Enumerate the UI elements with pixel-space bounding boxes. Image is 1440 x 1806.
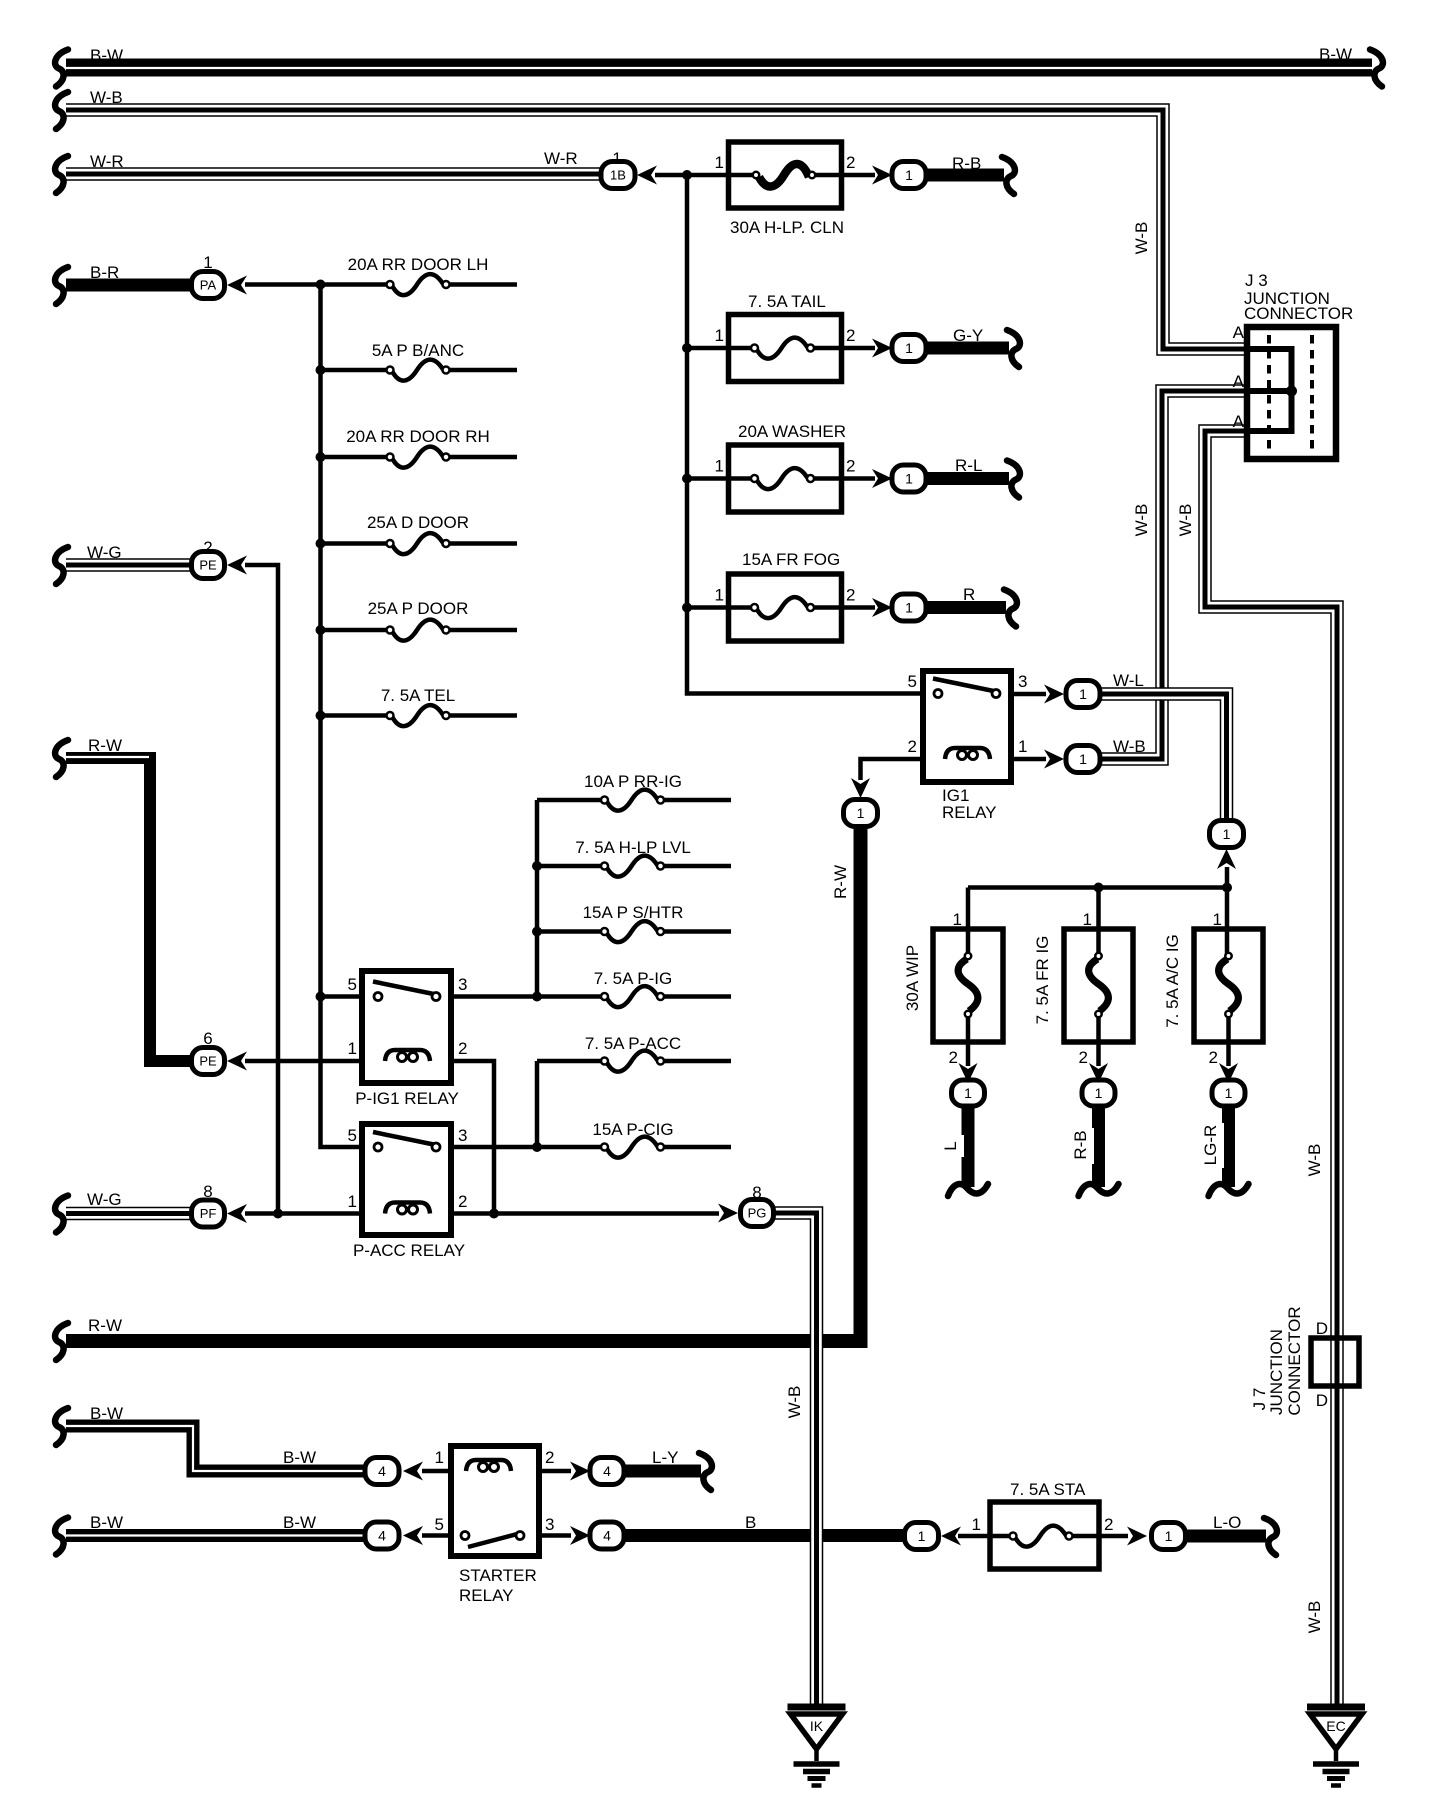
svg-text:1: 1 (715, 457, 724, 476)
svg-text:1: 1 (1079, 686, 1087, 702)
svg-text:1: 1 (435, 1448, 444, 1467)
node: PA bus junction row 6 (316, 711, 326, 721)
break: B-R left (55, 267, 68, 304)
svg-text:1: 1 (905, 167, 913, 183)
svg-text:2: 2 (458, 1192, 467, 1211)
relay P-IG1 coil pins 1-2 (385, 1050, 430, 1062)
fuse 7.5A P-ACC (601, 1051, 664, 1072)
svg-text:PA: PA (200, 278, 217, 293)
arrow into PF (227, 1204, 247, 1223)
relay P-ACC switch pins 5-3 (373, 1132, 440, 1151)
connector 1 on R-W below IG1 pin 2 (844, 800, 878, 827)
junction connector J3 internal bus pins A-A-A (1250, 349, 1292, 431)
svg-text:B-W: B-W (90, 1404, 123, 1423)
svg-text:PE: PE (199, 1054, 217, 1069)
svg-text:1B: 1B (610, 168, 626, 183)
svg-text:A: A (1233, 372, 1245, 391)
arrow into FR FOG output connector (872, 598, 892, 617)
connector 4 starter pin 5 feed (365, 1522, 399, 1549)
wire: L output of 30A WIP (962, 1104, 975, 1187)
svg-text:W-G: W-G (87, 1190, 122, 1209)
svg-text:1: 1 (905, 600, 913, 616)
wire: 30A WIP pin 1 drop (966, 888, 971, 1067)
wire: PA connector to left fuse bus (245, 282, 321, 287)
wire: PE pin 6 to P-IG1 relay pin 1 (245, 1059, 364, 1064)
connector PE pin 6 (192, 1048, 225, 1075)
svg-text:7. 5A P-ACC: 7. 5A P-ACC (585, 1034, 681, 1053)
svg-text:1: 1 (1095, 1085, 1103, 1101)
svg-text:5: 5 (348, 1126, 357, 1145)
svg-text:W-G: W-G (87, 543, 122, 562)
svg-text:W-R: W-R (544, 149, 578, 168)
svg-text:B-R: B-R (90, 263, 119, 282)
fuse box 20A WASHER (729, 445, 842, 512)
wire: 15A P S/HTR fuse row (537, 929, 731, 934)
svg-text:1: 1 (1225, 1085, 1233, 1101)
svg-text:W-B: W-B (90, 88, 123, 107)
fuse 7.5A TEL (387, 705, 450, 726)
node: FR FOG feed junction (682, 603, 692, 613)
arrow into starter pin 1 feed connector (403, 1462, 423, 1481)
fuse box 30A WIP (933, 929, 1003, 1042)
svg-text:20A RR DOOR LH: 20A RR DOOR LH (348, 255, 489, 274)
wire: P-IG1 relay pin 2 down to PG row (451, 1061, 494, 1214)
connector 1B (601, 162, 635, 189)
break: L-Y right (699, 1453, 712, 1490)
svg-text:JUNCTION: JUNCTION (1267, 1329, 1286, 1415)
fuse 25A D DOOR (387, 533, 450, 554)
arrow into W-B connector at IG1 pin 1 (1044, 750, 1064, 769)
svg-text:1: 1 (715, 586, 724, 605)
relay P-ACC box (362, 1124, 451, 1235)
wire: B-R feed to PA (66, 279, 196, 292)
connector 4 starter pin 2 out (590, 1458, 624, 1485)
connector 1 on W-L feed to right fuses (1210, 821, 1244, 848)
svg-text:P-IG1 RELAY: P-IG1 RELAY (355, 1089, 459, 1108)
svg-text:1: 1 (972, 1515, 981, 1534)
svg-text:B-W: B-W (283, 1513, 316, 1532)
wire: starter relay pin 3 out (538, 1533, 571, 1538)
break: R right (1004, 590, 1017, 627)
connector 1 on B wire (905, 1523, 939, 1550)
connector 1 after 30A H-LP.CLN (892, 162, 926, 189)
wire: vertical feed bus from W-R down to IG1 relay pin 5 (687, 175, 924, 694)
node: PA bus junction row 1 (316, 280, 326, 290)
break: B-W starter bottom left (55, 1518, 68, 1555)
fuse element 7.5A TAIL (751, 338, 814, 359)
connector 1 after 7.5A TAIL (892, 335, 926, 362)
fuse 15A P-CIG (601, 1137, 664, 1158)
svg-text:20A WASHER: 20A WASHER (738, 422, 846, 441)
node: PA bus junction row 4 (316, 539, 326, 549)
wire: R-B output of 30A H-LP.CLN (924, 169, 1004, 182)
connector PE pin 2 (192, 552, 225, 579)
svg-text:B-W: B-W (1319, 45, 1352, 64)
fuse box 7.5A STA (990, 1502, 1099, 1569)
svg-text:4: 4 (378, 1528, 386, 1544)
wire: R-W feed to PE pin 6 (66, 757, 196, 1061)
arrow into W-L connector at IG1 pin 3 (1044, 685, 1064, 704)
svg-text:10A P RR-IG: 10A P RR-IG (584, 772, 682, 791)
svg-text:15A P S/HTR: 15A P S/HTR (583, 903, 684, 922)
svg-text:2: 2 (949, 1048, 958, 1067)
break: B-W starter top left (55, 1408, 68, 1445)
svg-text:IK: IK (810, 1718, 824, 1734)
svg-text:7. 5A H-LP LVL: 7. 5A H-LP LVL (575, 838, 691, 857)
fuse 7.5A H-LP LVL (601, 856, 664, 877)
svg-text:B: B (745, 1513, 756, 1532)
connector 1 below 7.5A A/C IG (1212, 1080, 1245, 1106)
svg-text:4: 4 (603, 1463, 611, 1479)
ground EC (1307, 1707, 1365, 1786)
wire: R output of 15A FR FOG (924, 601, 1006, 614)
wire: starter relay pin 2 out (538, 1469, 571, 1474)
relay IG1 switch pins 5-3 (933, 679, 1000, 698)
svg-text:4: 4 (378, 1463, 386, 1479)
svg-text:2: 2 (846, 326, 855, 345)
arrow into L-O connector (1127, 1527, 1147, 1546)
ground IK (788, 1707, 846, 1786)
arrow into WASHER output connector (872, 469, 892, 488)
svg-text:30A WIP: 30A WIP (903, 945, 922, 1011)
svg-text:LG-R: LG-R (1201, 1125, 1220, 1166)
relay STARTER coil pins 1-2 (466, 1460, 511, 1472)
wire: R-W bottom bus up to IG1 relay pin 2 connector (66, 826, 861, 1341)
wire: 20A RR DOOR RH fuse row (321, 455, 518, 460)
svg-text:W-B: W-B (1305, 1601, 1324, 1634)
svg-text:1: 1 (348, 1039, 357, 1058)
connector PG pin 8 (741, 1200, 774, 1227)
break: R-L right (1007, 461, 1020, 498)
svg-text:3: 3 (1018, 672, 1027, 691)
arrow into PG (718, 1204, 738, 1223)
wire: 15A FR FOG pin 2 out (811, 605, 876, 610)
wire: 30A H-LP.CLN pin 2 to connector (812, 173, 875, 178)
svg-text:W-B: W-B (1176, 504, 1195, 537)
svg-text:7. 5A A/C IG: 7. 5A A/C IG (1163, 934, 1182, 1028)
break: G-Y right (1007, 330, 1020, 367)
relay STARTER box (451, 1446, 539, 1556)
svg-text:D: D (1316, 1391, 1328, 1410)
wire: 7.5A H-LP LVL fuse row (537, 864, 731, 869)
svg-text:PE: PE (199, 558, 217, 573)
wire: P-ACC relay pin 2 to PG connector (451, 1211, 719, 1216)
wire: 7.5A FR IG pin 1 drop (1096, 888, 1101, 1067)
wire: 20A WASHER pin 2 out (811, 476, 876, 481)
svg-text:RELAY: RELAY (459, 1586, 514, 1605)
node: PA bus junction row 3 (316, 452, 326, 462)
wire: W-G feed to PF pin 8 (66, 1207, 196, 1221)
connector 1 below 30A WIP (952, 1080, 985, 1106)
wire: B bar connector to 7.5A STA pin 1 (958, 1534, 1013, 1539)
fuse element 15A FR FOG (751, 597, 814, 618)
break: W-G PF left (55, 1196, 68, 1233)
wire: 25A D DOOR fuse row (321, 541, 518, 546)
junction connector J3 internal junction node (1286, 386, 1297, 397)
arrow into 1B (637, 166, 657, 185)
wire: 5A P B/ANC fuse row (321, 368, 518, 373)
wire: 10A P RR-IG fuse row (537, 798, 731, 803)
svg-text:1: 1 (612, 149, 621, 168)
arrow down into FR IG output connector (1089, 1063, 1108, 1083)
break: L bottom (948, 1184, 988, 1196)
svg-text:PF: PF (200, 1206, 217, 1221)
wire: IG1 relay pin 1 out (1011, 757, 1046, 762)
node: PA bus junction row 5 (316, 625, 326, 635)
svg-text:1: 1 (857, 805, 865, 821)
svg-text:W-B: W-B (1113, 737, 1146, 756)
svg-text:R-W: R-W (88, 1316, 122, 1335)
connector 1 below 7.5A FR IG (1082, 1080, 1115, 1106)
arrow into starter pin 5 feed connector (403, 1526, 423, 1545)
svg-text:8: 8 (203, 1182, 212, 1201)
svg-text:1: 1 (905, 340, 913, 356)
break: W-R left (55, 156, 68, 193)
svg-text:2: 2 (908, 737, 917, 756)
svg-text:J 3: J 3 (1245, 271, 1268, 290)
wire: 20A RR DOOR LH fuse row (321, 282, 518, 287)
wire: mid fuse bus lower (535, 1061, 540, 1147)
wire: R-L output of 20A WASHER (924, 472, 1009, 485)
svg-text:30A H-LP. CLN: 30A H-LP. CLN (730, 218, 844, 237)
svg-text:RELAY: RELAY (942, 803, 997, 822)
fuse 25A P DOOR (387, 620, 450, 641)
node: PE link joins PF row (273, 1209, 283, 1219)
wire: PF connector to P-ACC relay pin 1 (245, 1211, 364, 1216)
svg-text:2: 2 (1079, 1048, 1088, 1067)
node: mid bus junction P S/HTR (532, 927, 542, 937)
svg-text:5: 5 (908, 672, 917, 691)
break: L-O right (1264, 1518, 1277, 1555)
wire: B-W feed to starter relay pin 1 (66, 1426, 368, 1471)
break: R-B right (1002, 157, 1015, 194)
svg-text:2: 2 (203, 538, 212, 557)
svg-text:R-B: R-B (1071, 1130, 1090, 1159)
wire: R-B output of 7.5A FR IG (1092, 1104, 1105, 1187)
fuse 15A P S/HTR (601, 921, 664, 942)
arrow down into 30A WIP output connector (959, 1063, 978, 1083)
svg-text:1: 1 (1018, 737, 1027, 756)
svg-text:R: R (963, 585, 975, 604)
node: mid bus junction P-CIG (532, 1142, 542, 1152)
node: mid bus junction H-LP LVL (532, 861, 542, 871)
label LG-R rotated with mask (1201, 1123, 1224, 1168)
svg-text:25A P DOOR: 25A P DOOR (368, 599, 469, 618)
relay P-ACC coil pins 1-2 (385, 1203, 430, 1215)
svg-text:15A FR FOG: 15A FR FOG (742, 550, 840, 569)
svg-text:1: 1 (1083, 910, 1092, 929)
wire: 15A FR FOG pin 1 feed (687, 605, 755, 610)
svg-text:1: 1 (203, 253, 212, 272)
wire: P-IG1 relay pin 3 to mid fuse bus (451, 994, 537, 999)
wire: 7.5A TAIL pin 1 feed (687, 346, 755, 351)
fuse element 30A WIP (958, 953, 978, 1017)
svg-text:1: 1 (1165, 1528, 1173, 1544)
fuse element 30A H-LP. CLN (753, 164, 815, 187)
svg-text:R-B: R-B (952, 154, 981, 173)
connector 1 on W-B at IG1 pin 1 (1066, 746, 1100, 773)
wire: W-L from IG1 relay pin 3 down to right fuse bus connector (1098, 694, 1227, 822)
wire: left fuse bus down to P-ACC relay pin 5 (321, 285, 365, 1148)
arrow into PE pin 6 (227, 1052, 247, 1071)
svg-text:1: 1 (1213, 910, 1222, 929)
svg-text:8: 8 (752, 1183, 761, 1202)
arrow into 30A H-LP.CLN output connector (872, 166, 892, 185)
wire: PE pin 2 to vertical link down to PF row (245, 565, 278, 1214)
svg-text:R-L: R-L (955, 456, 982, 475)
node: PA bus junction row 2 (316, 365, 326, 375)
fuse 7.5A P-IG (601, 986, 664, 1007)
wire: right fuse feed bus (968, 885, 1227, 890)
svg-text:2: 2 (846, 457, 855, 476)
svg-text:1: 1 (715, 326, 724, 345)
wire: starter relay pin 5 feed (422, 1533, 452, 1538)
svg-text:P-ACC RELAY: P-ACC RELAY (353, 1241, 465, 1260)
svg-text:7. 5A TEL: 7. 5A TEL (381, 686, 455, 705)
node: right fuse bus junction FR IG (1094, 883, 1104, 893)
svg-text:R-W: R-W (88, 736, 122, 755)
node: mid bus junction P-IG (532, 992, 542, 1002)
wire: W-B from J3 pin A down through J7 to EC ground (1205, 431, 1337, 1705)
fuse box 7.5A A/C IG (1194, 929, 1263, 1042)
connector 1 after 15A FR FOG (892, 594, 926, 621)
svg-text:1: 1 (905, 471, 913, 487)
svg-text:1: 1 (918, 1528, 926, 1544)
fuse box 30A H-LP. CLN (729, 142, 842, 208)
svg-text:2: 2 (545, 1448, 554, 1467)
break: B-W top bus right (1370, 50, 1383, 87)
svg-text:7. 5A P-IG: 7. 5A P-IG (594, 969, 672, 988)
wire: LG-R output of 7.5A A/C IG (1222, 1104, 1235, 1187)
relay IG1 box (923, 671, 1011, 782)
svg-text:EC: EC (1326, 1718, 1345, 1734)
node: TAIL feed junction (682, 343, 692, 353)
svg-text:CONNECTOR: CONNECTOR (1285, 1306, 1304, 1415)
svg-text:3: 3 (458, 1126, 467, 1145)
wire: W-B top bus down to J3 junction connector pin A (66, 110, 1249, 349)
svg-text:5: 5 (435, 1515, 444, 1534)
svg-text:1: 1 (964, 1085, 972, 1101)
junction connector J7 box (1311, 1338, 1359, 1386)
break: LG-R bottom (1209, 1184, 1249, 1196)
fuse element 7.5A FR IG (1089, 953, 1109, 1017)
svg-text:W-B: W-B (1305, 1144, 1324, 1177)
fuse 10A P RR-IG (601, 790, 664, 811)
svg-text:W-B: W-B (1132, 222, 1151, 255)
wire: 7.5A TAIL pin 2 out (811, 346, 876, 351)
svg-text:5A P B/ANC: 5A P B/ANC (372, 341, 464, 360)
wire: 7.5A TEL fuse row (321, 713, 518, 718)
break: W-G PE left (55, 547, 68, 584)
break: W-B top left (55, 92, 68, 129)
arrow into B wire connector (941, 1527, 961, 1546)
svg-text:1: 1 (953, 910, 962, 929)
svg-text:25A D DOOR: 25A D DOOR (367, 513, 469, 532)
svg-text:L-Y: L-Y (652, 1448, 678, 1467)
connector 1 after 20A WASHER (892, 465, 926, 492)
connector 4 starter pin 3 out (590, 1522, 624, 1549)
wire: 20A WASHER pin 1 feed (687, 476, 755, 481)
relay P-IG1 box (362, 971, 451, 1083)
svg-text:7. 5A TAIL: 7. 5A TAIL (748, 292, 826, 311)
arrow into PE pin 2 (227, 556, 247, 575)
svg-text:3: 3 (545, 1515, 554, 1534)
arrow into starter pin 3 output connector (570, 1526, 590, 1545)
wire: P-ACC relay pin 3 to 15A P-CIG fuse row (451, 1145, 731, 1150)
relay IG1 coil pins 2-1 (945, 748, 990, 760)
svg-text:B-W: B-W (283, 1448, 316, 1467)
wire: W-G feed to PE pin 2 (66, 558, 196, 572)
svg-text:W-B: W-B (1132, 504, 1151, 537)
svg-text:1: 1 (715, 153, 724, 172)
svg-text:1: 1 (1079, 751, 1087, 767)
wire: W-R feed bus to 1B (66, 167, 604, 181)
wire: B-W feed to starter relay pin 5 (66, 1529, 368, 1542)
arrow into TAIL output connector (872, 339, 892, 358)
break: R-B bottom (1079, 1184, 1119, 1196)
connector 4 starter pin 1 feed (365, 1458, 399, 1485)
svg-text:L-O: L-O (1213, 1513, 1241, 1532)
svg-text:B-W: B-W (90, 1513, 123, 1532)
svg-text:7. 5A STA: 7. 5A STA (1010, 1480, 1086, 1499)
label L rotated with mask (941, 1135, 964, 1157)
svg-text:A: A (1233, 412, 1245, 431)
svg-text:A: A (1233, 323, 1245, 342)
wire: G-Y output of 7.5A TAIL (924, 342, 1009, 355)
connector 1 after 7.5A STA (1152, 1523, 1186, 1550)
wire: IG1 relay pin 2 to R-W drop (861, 759, 925, 780)
svg-text:CONNECTOR: CONNECTOR (1244, 304, 1353, 323)
fuse 20A RR DOOR LH (387, 274, 450, 295)
svg-text:20A RR DOOR RH: 20A RR DOOR RH (346, 427, 490, 446)
wire: L-O output of 7.5A STA (1184, 1530, 1266, 1543)
svg-text:W-L: W-L (1113, 671, 1144, 690)
svg-text:1: 1 (1223, 826, 1231, 842)
break: R-W bus left (55, 1323, 68, 1360)
svg-text:2: 2 (1209, 1048, 1218, 1067)
wire: 7.5A P-IG fuse row (537, 994, 731, 999)
fuse box 15A FR FOG (729, 574, 842, 641)
wire: W-B from PG down to IK ground (772, 1213, 817, 1705)
junction connector J3 dashed pin lines (1269, 335, 1312, 451)
svg-text:1: 1 (348, 1192, 357, 1211)
wire: 7.5A STA pin 2 out (1069, 1534, 1128, 1539)
svg-text:7. 5A FR IG: 7. 5A FR IG (1033, 936, 1052, 1025)
svg-text:G-Y: G-Y (953, 326, 983, 345)
connector PF pin 8 (192, 1200, 225, 1227)
fuse 5A P B/ANC (387, 360, 450, 381)
svg-text:W-R: W-R (90, 152, 124, 171)
break: B-W top bus left (55, 50, 68, 87)
svg-text:3: 3 (458, 975, 467, 994)
arrow into starter pin 2 output connector (570, 1462, 590, 1481)
svg-text:W-B: W-B (785, 1386, 804, 1419)
wire: mid fuse bus upper (535, 800, 540, 997)
svg-text:B-W: B-W (90, 46, 123, 65)
wire: starter relay pin 1 feed (422, 1469, 452, 1474)
connector 1 on W-L at IG1 pin 3 (1066, 681, 1100, 708)
connector PA pin 1 (192, 272, 225, 299)
label R-B rotated with mask (1071, 1128, 1094, 1164)
node: WASHER feed junction (682, 474, 692, 484)
svg-text:5: 5 (348, 975, 357, 994)
svg-text:4: 4 (603, 1528, 611, 1544)
svg-text:2: 2 (458, 1039, 467, 1058)
svg-text:R-W: R-W (831, 865, 850, 899)
fuse element 7.5A STA (1010, 1526, 1073, 1547)
svg-text:15A P-CIG: 15A P-CIG (592, 1120, 673, 1139)
node: W-R feed junction (682, 170, 692, 180)
